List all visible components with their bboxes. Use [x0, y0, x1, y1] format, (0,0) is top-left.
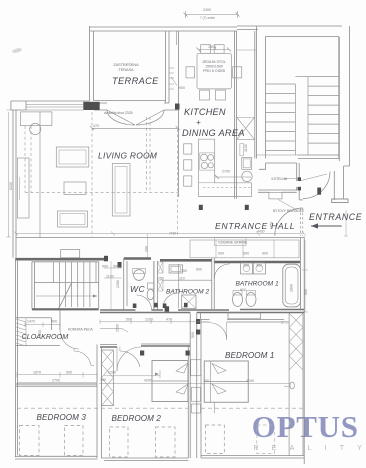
svg-text:1500x1500: 1500x1500 [205, 65, 223, 69]
svg-text:ENTRANCE: ENTRANCE [309, 212, 362, 222]
svg-text:110: 110 [179, 276, 185, 280]
svg-text:500: 500 [126, 318, 132, 322]
svg-text:2280: 2280 [116, 280, 120, 288]
svg-text:BATHROOM 2: BATHROOM 2 [166, 289, 209, 296]
svg-text:LIVING ROOM: LIVING ROOM [98, 151, 157, 161]
svg-text:1850: 1850 [270, 221, 274, 229]
svg-text:300: 300 [256, 264, 262, 268]
svg-text:1750: 1750 [281, 321, 289, 325]
svg-text:150: 150 [181, 269, 187, 273]
svg-text:1870: 1870 [33, 371, 41, 375]
svg-text:1500: 1500 [116, 324, 120, 332]
svg-text:1100: 1100 [106, 275, 114, 279]
svg-text:2400: 2400 [203, 8, 211, 12]
svg-text:BEDROOM 1: BEDROOM 1 [225, 351, 274, 360]
svg-text:1470: 1470 [27, 320, 35, 324]
svg-text:1200: 1200 [145, 318, 153, 322]
svg-text:PRO 6 OSEB: PRO 6 OSEB [203, 69, 225, 73]
svg-text:600: 600 [240, 288, 246, 292]
svg-text:1800: 1800 [290, 284, 294, 292]
svg-text:BEDROOM 3: BEDROOM 3 [37, 413, 87, 422]
svg-text:500: 500 [304, 289, 308, 295]
svg-text:KITCHEN: KITCHEN [184, 107, 226, 117]
svg-text:OPTUS: OPTUS [252, 409, 359, 444]
svg-text:KOMORA-PECA: KOMORA-PECA [68, 328, 94, 332]
svg-text:KOTELNA: KOTELNA [272, 177, 288, 181]
svg-text:1200: 1200 [108, 371, 116, 375]
svg-text:470: 470 [93, 124, 99, 128]
svg-text:900: 900 [262, 252, 268, 256]
svg-text:ENTRANCE HALL: ENTRANCE HALL [215, 221, 295, 231]
svg-text:CLOAKROOM: CLOAKROOM [22, 332, 69, 341]
svg-text:300: 300 [243, 264, 249, 268]
svg-text:7730: 7730 [169, 232, 176, 236]
svg-text:7 (7) zvetn: 7 (7) zvetn [200, 16, 215, 20]
svg-text:600: 600 [243, 252, 249, 256]
svg-text:900: 900 [66, 371, 72, 375]
svg-text:2700: 2700 [52, 379, 60, 383]
svg-text:200: 200 [145, 246, 149, 252]
svg-text:800: 800 [38, 330, 42, 336]
svg-text:REALITY: REALITY [254, 445, 366, 452]
svg-text:+: + [196, 118, 201, 127]
svg-text:400: 400 [51, 320, 57, 324]
svg-text:700: 700 [203, 379, 209, 383]
svg-text:BEDROOM 2: BEDROOM 2 [112, 414, 162, 423]
svg-text:470: 470 [166, 318, 172, 322]
svg-text:dvokrilni dvur 2325: dvokrilni dvur 2325 [104, 111, 133, 115]
svg-text:1100: 1100 [244, 144, 248, 152]
svg-text:2700: 2700 [222, 170, 230, 174]
svg-text:500: 500 [113, 265, 119, 269]
svg-text:500: 500 [191, 332, 195, 338]
svg-text:6230: 6230 [9, 182, 13, 190]
svg-text:TERRACE: TERRACE [112, 76, 159, 86]
svg-text:900: 900 [179, 86, 185, 90]
svg-text:4200: 4200 [144, 379, 152, 383]
svg-text:DINING AREA: DINING AREA [182, 128, 245, 138]
svg-text:JEDILNI STOL: JEDILNI STOL [202, 60, 226, 64]
svg-text:750: 750 [158, 276, 164, 280]
svg-text:100: 100 [100, 378, 106, 382]
svg-text:ZASTREŠENA: ZASTREŠENA [113, 62, 139, 67]
svg-text:900: 900 [218, 252, 224, 256]
svg-text:BATHROOM 1: BATHROOM 1 [236, 281, 279, 288]
svg-text:600: 600 [196, 268, 202, 272]
svg-text:4190: 4190 [246, 379, 254, 383]
svg-text:WC: WC [130, 284, 146, 294]
svg-text:TERASA: TERASA [118, 68, 134, 72]
svg-text:4430: 4430 [257, 230, 265, 234]
svg-text:BYTOVY ROZVADEC: BYTOVY ROZVADEC [273, 209, 305, 213]
svg-text:500: 500 [102, 265, 108, 269]
svg-text:VZIDANE SKRINE: VZIDANE SKRINE [218, 241, 248, 245]
svg-text:1500: 1500 [208, 45, 216, 49]
